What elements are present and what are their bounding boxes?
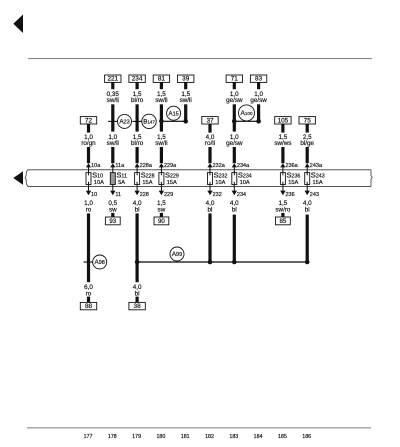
fuse S232 10A (208, 167, 228, 191)
svg-text:184: 184 (254, 434, 263, 440)
wire stub under box 81 (160, 82, 163, 89)
wire label 1,0 sw/li (107, 134, 119, 147)
wire (down to fuse panel) (111, 147, 114, 163)
wire (down to fuse panel) (87, 147, 90, 163)
terminal box 37 (202, 117, 218, 125)
fuse S229 15A (159, 167, 179, 191)
svg-text:10A: 10A (240, 180, 250, 186)
wire (fuse 243 down to junction A99 line) (306, 215, 309, 262)
svg-text:75: 75 (304, 117, 312, 124)
junction dot (83 wire end) (256, 119, 261, 124)
fuse panel entry arrow (280, 163, 285, 167)
fuse panel entry arrow (86, 163, 91, 167)
wire (down to fuse panel) (306, 147, 309, 163)
fuse panel band top edge (28, 168, 372, 171)
wire label 1,0 ge/sw (226, 91, 243, 104)
svg-text:11a: 11a (115, 163, 125, 169)
svg-text:243a: 243a (310, 163, 323, 169)
fuse panel exit arrow (110, 191, 115, 196)
svg-text:sw/li: sw/li (180, 97, 192, 104)
terminal box 93 (105, 217, 120, 225)
svg-text:15A: 15A (167, 180, 177, 186)
svg-text:bl/ge: bl/ge (300, 140, 314, 147)
svg-text:15A: 15A (142, 180, 152, 186)
svg-text:232: 232 (213, 192, 222, 198)
svg-text:sw/li: sw/li (155, 97, 167, 104)
svg-text:81: 81 (158, 76, 166, 83)
svg-text:37: 37 (206, 117, 214, 124)
wire (down to fuse panel) (233, 147, 236, 163)
svg-text:sw/li: sw/li (107, 140, 119, 147)
bottom separator line (27, 427, 371, 428)
svg-text:ge/sw: ge/sw (250, 97, 267, 104)
svg-text:ro: ro (86, 291, 92, 298)
wire (221 to junction A23) (111, 104, 114, 131)
wire (down to fuse panel) (160, 147, 163, 163)
svg-text:bl: bl (135, 207, 140, 214)
junction line A99 (137, 261, 307, 262)
wire label 4,0 bl (206, 200, 215, 213)
wire stub to box 90 (160, 213, 163, 217)
wire stub under box 75 (306, 124, 309, 133)
fuse panel exit arrow (159, 191, 164, 196)
wire label 4,0 ro/li (205, 134, 215, 147)
svg-text:A100: A100 (240, 110, 253, 117)
terminal box 85 (276, 217, 291, 225)
wire (down to fuse panel) (281, 147, 284, 163)
wire stub under box 37 (208, 124, 211, 133)
fuse panel exit arrow (305, 191, 310, 196)
connection circle B147 (142, 114, 156, 128)
wire (81 down, through junction A15) (160, 104, 163, 131)
svg-text:236a: 236a (286, 163, 299, 169)
wire label 1,5 sw/li (180, 91, 192, 104)
svg-text:180: 180 (156, 434, 165, 440)
wire label 6,0 ro (84, 284, 93, 297)
wire label 1,0 ge/sw (226, 134, 243, 147)
svg-text:S10: S10 (92, 171, 103, 180)
svg-text:B147: B147 (143, 119, 155, 126)
wire (down to fuse panel) (136, 147, 139, 163)
wire label 1,5 bl/ro (131, 91, 144, 104)
wire stub to box 93 (111, 213, 114, 217)
svg-text:185: 185 (278, 434, 287, 440)
svg-text:bl/ro: bl/ro (131, 140, 144, 147)
fuse panel exit arrow (86, 191, 91, 196)
terminal box 81 (153, 75, 169, 83)
svg-text:232a: 232a (213, 163, 226, 169)
svg-text:186: 186 (302, 434, 311, 440)
wire stub to box 38 (136, 297, 139, 303)
svg-text:181: 181 (181, 434, 190, 440)
terminal box 38 (129, 302, 145, 310)
wire stub under box 39 (184, 82, 187, 89)
svg-text:5A: 5A (118, 180, 125, 186)
svg-text:bl: bl (232, 207, 237, 214)
svg-text:10a: 10a (91, 163, 101, 169)
junction dot (81 wire) (159, 119, 164, 124)
fuse panel band right edge (371, 170, 372, 187)
svg-text:bl: bl (135, 291, 140, 298)
svg-text:38: 38 (134, 303, 142, 310)
fuse S11 5A (110, 167, 127, 191)
svg-text:ro: ro (86, 207, 92, 214)
terminal box 234 (129, 75, 145, 83)
svg-text:179: 179 (132, 434, 141, 440)
svg-text:11: 11 (115, 192, 121, 198)
wire stub to box 85 (281, 213, 284, 217)
svg-text:10A: 10A (215, 180, 225, 186)
fuse panel entry arrow (232, 163, 237, 167)
svg-text:ro/gn: ro/gn (81, 140, 96, 147)
svg-text:A23: A23 (119, 119, 129, 126)
svg-text:A15: A15 (168, 110, 178, 117)
wire label 0,5 sw (108, 200, 117, 213)
fuse panel exit arrow (280, 191, 285, 196)
fuse panel exit arrow (134, 191, 139, 196)
wire label 1,0 ge/sw (250, 91, 267, 104)
fuse panel band left break (brace) (25, 170, 28, 187)
junction dot (39 wire end) (183, 119, 188, 124)
svg-text:S229: S229 (165, 171, 179, 180)
wire label 1,0 ro (84, 200, 93, 213)
svg-text:178: 178 (108, 434, 117, 440)
fuse panel continuation arrow (left) (13, 171, 23, 185)
wire (fuse 228 down through junction A99) (136, 213, 139, 282)
terminal box 39 (178, 75, 194, 83)
junction dot (232 wire end) (208, 260, 213, 265)
svg-text:sw/li: sw/li (155, 140, 167, 147)
svg-text:234: 234 (132, 76, 143, 83)
svg-text:S11: S11 (116, 171, 127, 180)
junction line A15 (161, 121, 185, 122)
page continuation arrow (top left) (13, 15, 23, 34)
fuse panel entry arrow (207, 163, 212, 167)
wire (down to fuse panel) (208, 147, 211, 163)
svg-text:ge/sw: ge/sw (226, 97, 243, 104)
wire (fuse 10 down through junction A98) (87, 213, 90, 282)
wire label 4,0 bl (133, 284, 142, 297)
junction dot (234 wire end) (232, 260, 237, 265)
svg-text:S234: S234 (238, 171, 252, 180)
junction line A100 (234, 121, 258, 122)
svg-text:229: 229 (164, 192, 173, 198)
svg-text:234: 234 (237, 192, 246, 198)
svg-text:15A: 15A (288, 180, 298, 186)
junction dot (228 wire) (135, 260, 140, 265)
svg-text:228a: 228a (140, 163, 153, 169)
wire label 4,0 bl (133, 200, 142, 213)
fuse panel exit arrow (232, 191, 237, 196)
svg-text:10A: 10A (94, 180, 104, 186)
svg-text:183: 183 (229, 434, 238, 440)
wire stub under box 71 (233, 82, 236, 89)
svg-text:85: 85 (279, 218, 286, 225)
fuse S228 15A (135, 167, 155, 191)
svg-text:229a: 229a (164, 163, 177, 169)
top separator line (28, 58, 372, 59)
wire stub under box 105 (281, 124, 284, 133)
fuse S243 15A (305, 167, 325, 191)
wire stub to box 88 (87, 297, 90, 303)
svg-text:90: 90 (158, 218, 165, 225)
svg-text:39: 39 (182, 76, 190, 83)
svg-text:sw/li: sw/li (107, 97, 119, 104)
svg-text:83: 83 (255, 76, 263, 83)
terminal box 75 (299, 117, 315, 125)
wire (39 down to junction A15 line) (184, 104, 187, 121)
wire label 1,0 ro/gn (81, 134, 96, 147)
wire label 1,5 sw/ro (275, 200, 291, 213)
svg-text:243: 243 (310, 192, 319, 198)
terminal box 105 (275, 117, 291, 125)
wire label 0,35 sw/li (107, 91, 120, 104)
svg-text:bl: bl (208, 207, 213, 214)
terminal box 90 (154, 217, 169, 225)
connection circle A98 (93, 255, 107, 269)
wire stub under box 221 (111, 82, 114, 89)
wire label 1,5 sw/li (155, 134, 167, 147)
svg-text:sw/ws: sw/ws (274, 140, 291, 147)
wire (fuse 234 down to junction A99 line) (233, 215, 236, 262)
wire (83 down to junction A100 line) (257, 104, 260, 121)
junction tick B147 (132, 121, 141, 122)
svg-text:236: 236 (286, 192, 295, 198)
svg-text:88: 88 (85, 303, 93, 310)
svg-text:15A: 15A (313, 180, 323, 186)
wire (71 down, through junction A100) (233, 104, 236, 131)
wire (234 to junction B147) (136, 104, 139, 131)
svg-text:sw: sw (158, 207, 166, 214)
svg-text:sw/ro: sw/ro (275, 207, 291, 214)
junction tick A23 (108, 121, 117, 122)
fuse S236 15A (280, 167, 300, 191)
fuse panel entry arrow (110, 163, 115, 167)
svg-text:S228: S228 (141, 171, 155, 180)
svg-text:S243: S243 (311, 171, 325, 180)
svg-text:S232: S232 (214, 171, 228, 180)
wire (fuse 232 down to junction A99 line) (208, 213, 211, 262)
wire label 1,5 sw/li (155, 91, 167, 104)
junction tick A98 (84, 261, 93, 262)
terminal box 83 (250, 75, 266, 83)
connection circle A23 (118, 114, 132, 128)
terminal box 71 (226, 75, 242, 83)
terminal box 221 (105, 75, 121, 83)
svg-text:10: 10 (91, 192, 97, 198)
svg-text:93: 93 (109, 218, 116, 225)
wire stub under box 234 (136, 82, 139, 89)
fuse S234 10A (232, 167, 252, 191)
wire label 1,5 bl/ro (131, 134, 144, 147)
wire label 1,5 sw (157, 200, 166, 213)
connection circle A100 (239, 105, 255, 121)
svg-text:ro/li: ro/li (205, 140, 215, 147)
svg-text:A98: A98 (95, 259, 105, 266)
svg-text:S236: S236 (287, 171, 301, 180)
wire stub under box 83 (257, 82, 260, 89)
fuse S10 10A (86, 167, 104, 191)
svg-text:221: 221 (107, 76, 118, 83)
fuse panel band bottom edge (28, 185, 372, 188)
fuse panel exit arrow (207, 191, 212, 196)
terminal box 88 (80, 302, 96, 310)
svg-text:71: 71 (231, 76, 239, 83)
svg-text:ge/sw: ge/sw (226, 140, 243, 147)
svg-text:A99: A99 (172, 251, 182, 258)
svg-text:sw: sw (109, 207, 117, 214)
wire label 2,5 bl/ge (300, 134, 314, 147)
connection circle A15 (167, 106, 181, 120)
wire stub under box 72 (87, 124, 90, 133)
svg-text:72: 72 (85, 117, 93, 124)
svg-text:bl: bl (305, 207, 310, 214)
fuse panel entry arrow (159, 163, 164, 167)
wire label 4,0 bl (230, 200, 239, 213)
wire label 4,0 bl (303, 200, 312, 213)
junction dot (243 wire end) (305, 260, 310, 265)
svg-text:228: 228 (140, 192, 149, 198)
svg-text:bl/ro: bl/ro (131, 97, 144, 104)
svg-text:234a: 234a (237, 163, 250, 169)
svg-text:182: 182 (205, 434, 214, 440)
connection circle A99 (170, 247, 184, 261)
svg-text:177: 177 (84, 434, 93, 440)
svg-text:105: 105 (278, 117, 289, 124)
terminal box 72 (80, 117, 96, 125)
fuse panel entry arrow (305, 163, 310, 167)
wire label 1,5 sw/ws (274, 134, 291, 147)
fuse panel entry arrow (135, 163, 140, 167)
junction dot (71 wire) (232, 119, 237, 124)
